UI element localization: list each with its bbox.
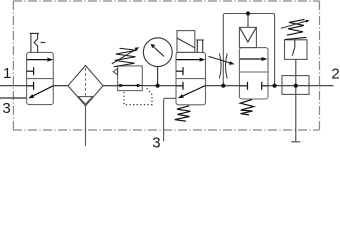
pressure gauge G1	[143, 38, 172, 67]
V2 blocked port bottom	[176, 82, 183, 90]
wire regulator to valve2	[142, 85, 176, 87]
svg-text:1: 1	[3, 65, 11, 82]
PS1 spring	[281, 19, 310, 39]
R1 pilot dotted line	[124, 88, 152, 105]
wire port 1 line	[0, 85, 27, 87]
R1 adjustment spring	[112, 47, 139, 67]
V3 pilot check box	[239, 27, 256, 47]
V3 return spring	[240, 100, 253, 115]
V2 exhaust flow diagonal	[178, 86, 206, 99]
V2 manual override	[196, 40, 203, 52]
throttle valve (adjustable restrictor)	[209, 54, 235, 79]
V1 exhaust flow diagonal	[28, 86, 53, 99]
exhaust tick	[291, 141, 300, 143]
wire bypass loop	[223, 14, 274, 86]
wire filter drain	[85, 106, 87, 146]
valve V2 body (3/2 solenoid valve)	[176, 52, 206, 104]
wire valve2 to valve3	[206, 85, 240, 87]
wire port 3 line left	[0, 97, 27, 99]
pressure regulator R1	[113, 66, 142, 91]
valve V3 body (2/2 soft start)	[239, 48, 268, 99]
wire stub to check box	[247, 14, 249, 28]
node top branch junction	[246, 11, 250, 15]
relief triangle	[113, 68, 117, 74]
pressure switch PS1	[285, 40, 308, 60]
wire filter to regulator	[103, 85, 118, 87]
valve V1 body (3/2 hand slide valve)	[27, 52, 54, 104]
V2 blocked port top	[176, 67, 183, 75]
wire pressure switch vertical	[295, 60, 297, 142]
V2 solenoid	[177, 31, 195, 53]
V1 manual slide actuator	[30, 33, 46, 52]
node bypass right junction	[273, 84, 277, 88]
node gauge junction	[156, 84, 160, 88]
V3 flow arrow top position	[240, 57, 268, 61]
V3 blocked port left	[239, 82, 247, 90]
wire valve3 to port 2	[268, 85, 334, 87]
node throttle junction	[221, 84, 225, 88]
enclosure dash-dot frame	[13, 1, 320, 130]
wire gauge stem	[157, 66, 159, 85]
filter with water separator	[68, 66, 103, 106]
V1 blocked port top	[27, 67, 34, 75]
node pressure switch junction	[294, 84, 298, 88]
V2 return spring	[175, 106, 191, 121]
V3 blocked port right	[262, 82, 268, 90]
svg-text:3: 3	[152, 135, 160, 148]
V1 blocked port bottom	[27, 82, 34, 90]
PS1 connection block	[282, 76, 309, 95]
V1 flow arrow top position	[27, 58, 53, 62]
wire valve1 to filter	[53, 85, 68, 87]
svg-text:2: 2	[331, 65, 339, 82]
V2 flow arrow top position	[176, 58, 205, 62]
wire valve2 exhaust to 3	[164, 98, 176, 141]
svg-text:3: 3	[2, 100, 10, 117]
